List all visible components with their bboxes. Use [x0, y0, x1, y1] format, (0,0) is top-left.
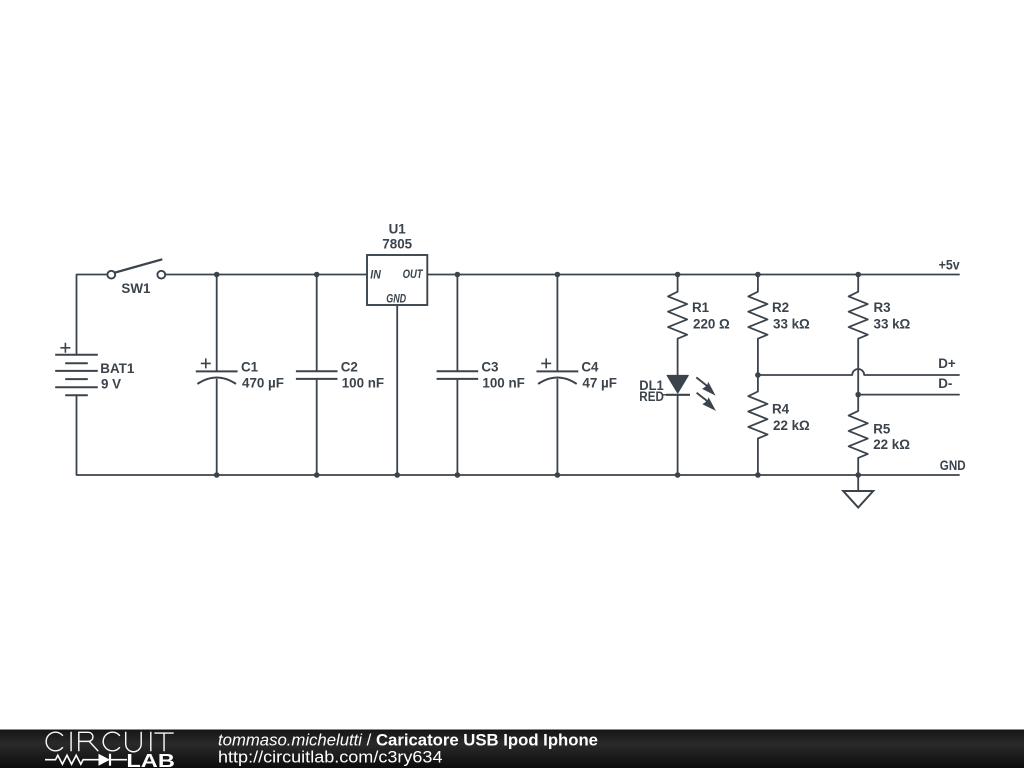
wire D- net: [858, 394, 959, 396]
resistor R3: [849, 292, 868, 339]
battery BAT1: [55, 343, 98, 395]
svg-text:C1: C1: [241, 360, 259, 375]
junction C4 top rail: [555, 272, 561, 278]
svg-text:SW1: SW1: [121, 281, 151, 296]
resistor R2: [748, 292, 767, 339]
junction R2 top rail: [755, 272, 761, 278]
wire bottom rail: [77, 395, 960, 475]
junction C4 bottom rail: [555, 472, 561, 478]
junction C3 bottom rail: [455, 472, 461, 478]
svg-text:C4: C4: [581, 360, 599, 375]
wire R1 LED branch: [677, 275, 679, 292]
svg-text:R5: R5: [873, 422, 891, 437]
wire C1 branch: [216, 275, 218, 372]
svg-text:tommaso.michelutti / Caricator: tommaso.michelutti / Caricatore USB Ipod…: [218, 732, 598, 750]
capacitor C1 (polarized): [196, 358, 238, 384]
junction R5 ground bottom rail: [855, 472, 861, 478]
svg-text:33 kΩ: 33 kΩ: [773, 317, 810, 332]
svg-text:R2: R2: [772, 300, 789, 315]
node D+ junction dot: [755, 372, 761, 378]
wire C4 branch: [556, 275, 558, 372]
svg-text:RED: RED: [639, 389, 664, 404]
svg-text:100 nF: 100 nF: [482, 375, 524, 390]
op-amp U1 box (7805 regulator): [367, 255, 427, 305]
svg-text:R3: R3: [874, 300, 891, 315]
svg-text:+5v: +5v: [939, 257, 961, 272]
junction R3 top rail: [855, 272, 861, 278]
junction C2 top rail: [314, 272, 320, 278]
svg-text:R1: R1: [692, 300, 710, 315]
svg-text:100 nF: 100 nF: [342, 375, 384, 390]
wire C2 branch: [316, 275, 318, 372]
LED DL1: [663, 376, 716, 411]
svg-text:7805: 7805: [382, 237, 412, 252]
svg-text:GND: GND: [940, 458, 966, 473]
capacitor C3: [437, 371, 479, 379]
wire R3 R5 branch: [857, 275, 859, 292]
node D- junction dot: [855, 392, 861, 398]
capacitor C4 (polarized): [537, 358, 579, 384]
svg-text:IN: IN: [370, 269, 381, 282]
ground symbol: [843, 475, 873, 508]
svg-text:LAB: LAB: [126, 751, 174, 768]
junction DL1 bottom rail: [675, 472, 681, 478]
capacitor C2: [296, 371, 338, 379]
wire U1 GND pin: [396, 305, 398, 475]
resistor R4: [748, 392, 767, 439]
svg-text:9 V: 9 V: [101, 377, 121, 392]
junction C1 top rail: [214, 272, 220, 278]
logo CIRCUIT text (thin stroked letters): [46, 732, 173, 752]
svg-text:D+: D+: [938, 356, 956, 371]
resistor R5: [849, 411, 868, 458]
svg-text:OUT: OUT: [403, 268, 424, 281]
svg-text:R4: R4: [772, 402, 790, 417]
svg-text:47 µF: 47 µF: [582, 375, 617, 390]
junction C2 bottom rail: [314, 472, 320, 478]
svg-text:22 kΩ: 22 kΩ: [773, 418, 810, 433]
logo resistor-diode glyph: [45, 754, 127, 766]
junction R4 bottom rail: [755, 472, 761, 478]
switch SW1: [107, 259, 165, 278]
junction U1 GND bottom rail: [394, 472, 400, 478]
footer bar: [0, 730, 1024, 768]
svg-text:http://circuitlab.com/c3ry634: http://circuitlab.com/c3ry634: [218, 749, 443, 767]
junction C3 top rail: [455, 272, 461, 278]
svg-text:BAT1: BAT1: [100, 361, 135, 376]
svg-text:22 kΩ: 22 kΩ: [873, 437, 910, 452]
svg-text:220 Ω: 220 Ω: [693, 317, 730, 332]
wire C3 branch: [456, 275, 458, 372]
resistor R1: [668, 292, 687, 339]
svg-text:U1: U1: [389, 222, 407, 237]
svg-text:C2: C2: [341, 360, 358, 375]
wire R2 R4 branch: [757, 275, 759, 292]
svg-text:C3: C3: [481, 360, 498, 375]
wire D+ net with hop: [758, 369, 959, 375]
wire top rail right segment: [427, 274, 959, 276]
svg-text:D-: D-: [938, 376, 952, 391]
svg-text:33 kΩ: 33 kΩ: [874, 317, 911, 332]
svg-text:GND: GND: [386, 293, 406, 306]
svg-text:470 µF: 470 µF: [242, 375, 284, 390]
wire top rail middle segment: [165, 274, 367, 276]
junction C1 bottom rail: [214, 472, 220, 478]
junction R1 top rail: [675, 272, 681, 278]
wire top rail left segment: [77, 275, 108, 355]
